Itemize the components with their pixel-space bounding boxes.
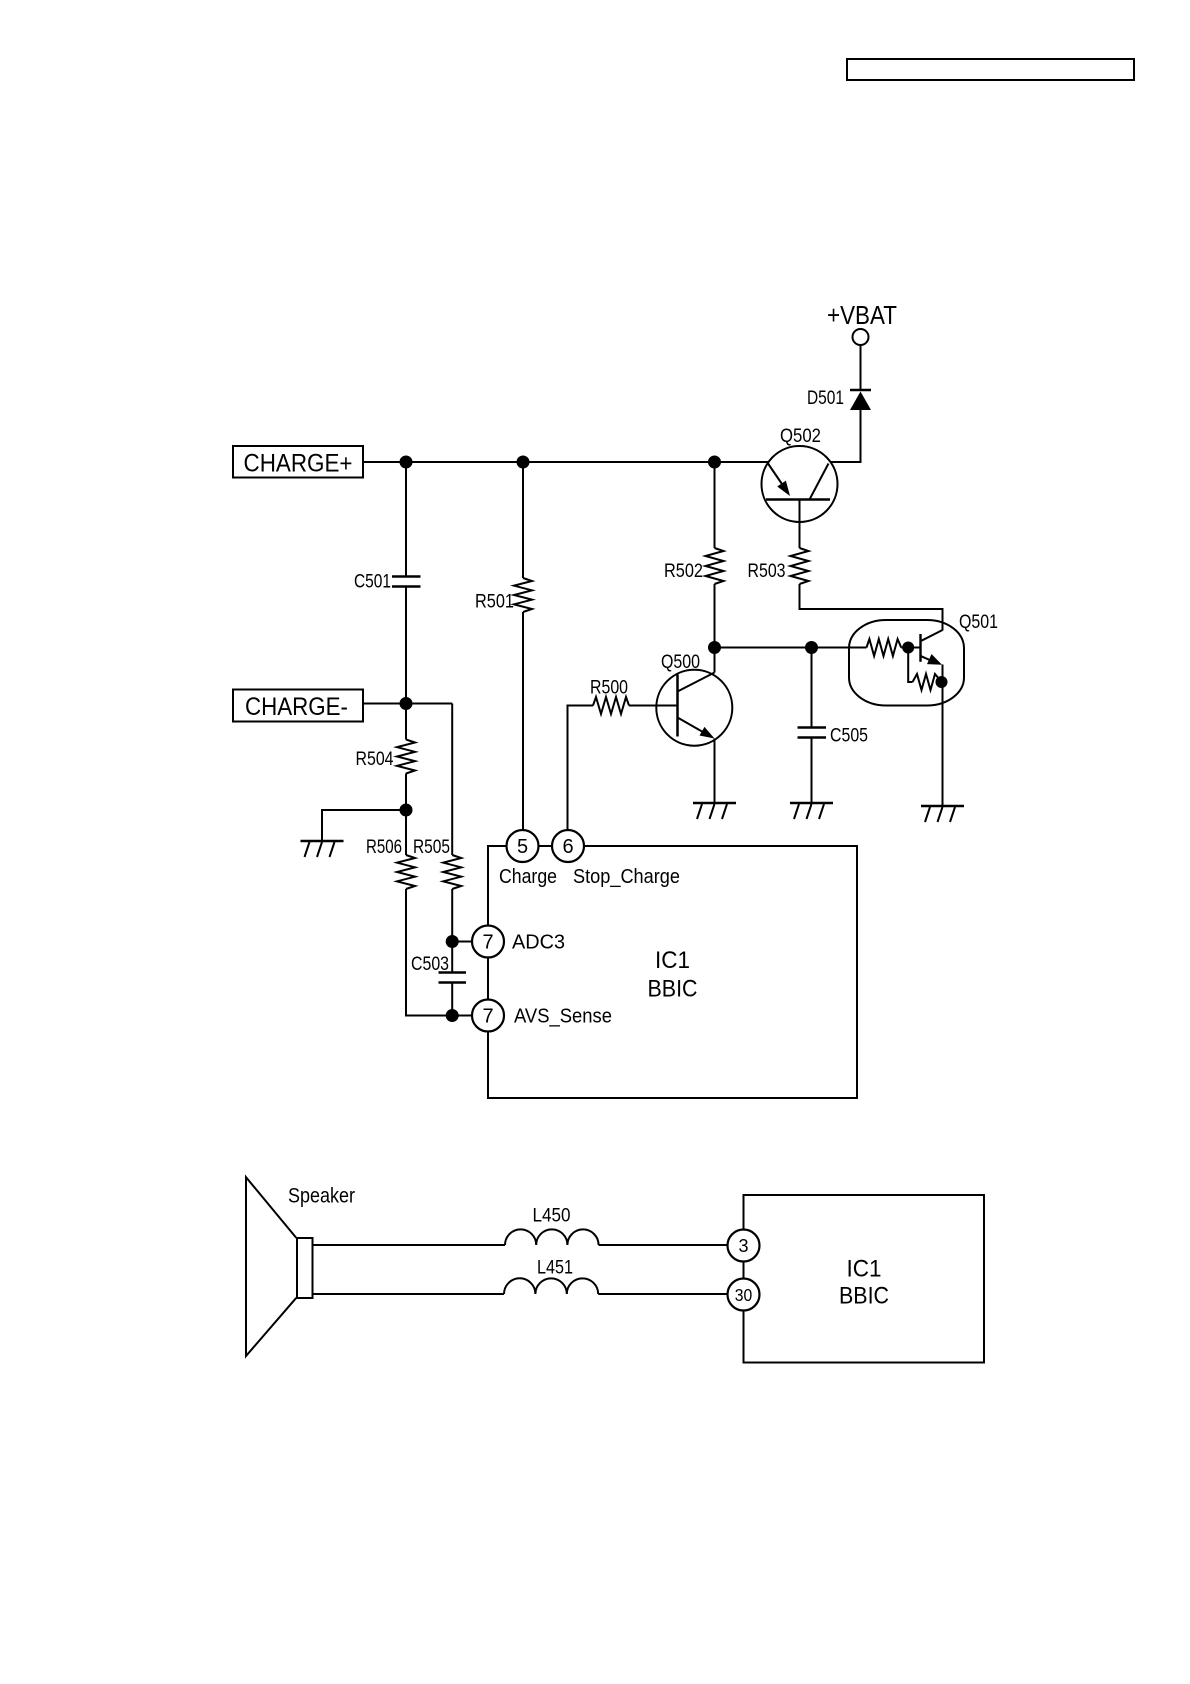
resistor R500 bbox=[590, 678, 629, 715]
ground left bbox=[301, 841, 344, 857]
svg-text:ADC3: ADC3 bbox=[512, 932, 565, 954]
svg-text:Q502: Q502 bbox=[780, 426, 821, 447]
IC U1 IC1 BBIC box bbox=[488, 846, 857, 1098]
wire L451 to pin 30 bbox=[598, 1293, 743, 1295]
svg-text:7: 7 bbox=[482, 1006, 493, 1028]
junction node / Q500 collector bbox=[708, 641, 721, 654]
capacitor C505 bbox=[798, 726, 869, 747]
ground Q500 emitter bbox=[693, 803, 736, 819]
wire C503 to AVS node bbox=[451, 983, 453, 1016]
wire R506 to AVS node bbox=[406, 889, 488, 1016]
pin 30 bbox=[728, 1279, 760, 1311]
svg-text:+VBAT: +VBAT bbox=[827, 300, 897, 330]
svg-text:R504: R504 bbox=[356, 749, 394, 770]
svg-text:C503: C503 bbox=[411, 954, 449, 975]
wire C505 to ground bbox=[811, 738, 813, 804]
wire R503 to Q501 collector bbox=[800, 584, 943, 631]
diode D501 bbox=[807, 388, 871, 410]
inductor L451 bbox=[504, 1258, 598, 1295]
wire CHARGE+ to R501 bbox=[522, 462, 524, 578]
svg-text:R503: R503 bbox=[748, 561, 786, 582]
svg-text:CHARGE-: CHARGE- bbox=[245, 693, 348, 721]
transistor Q500 bbox=[656, 652, 732, 746]
svg-text:6: 6 bbox=[562, 836, 573, 858]
wire collector node bus bbox=[715, 647, 867, 649]
wire +VBAT to D501 bbox=[860, 345, 862, 390]
wire CHARGE+ to R502 bbox=[714, 462, 716, 548]
capacitor C503 bbox=[411, 954, 466, 983]
terminal +VBAT bbox=[853, 329, 869, 345]
svg-text:L451: L451 bbox=[537, 1258, 573, 1279]
wire pin 6 to R500 bbox=[568, 706, 594, 847]
junction CHARGE+ / R502 bbox=[708, 456, 721, 469]
wire CHARGE- to R504 bbox=[405, 704, 407, 740]
pin 6 bbox=[552, 830, 584, 862]
capacitor C501 bbox=[354, 572, 421, 593]
ground C505 bbox=[790, 803, 833, 819]
svg-text:AVS_Sense: AVS_Sense bbox=[514, 1006, 612, 1028]
svg-text:R501: R501 bbox=[475, 592, 514, 613]
ground Q501 emitter bbox=[921, 806, 964, 822]
wire D501 anode to Q502 collector bbox=[830, 410, 861, 462]
junction CHARGE+ / C501 bbox=[400, 456, 413, 469]
junction Q501 emitter node bbox=[936, 676, 948, 688]
junction CHARGE+ / R501 bbox=[517, 456, 530, 469]
wire speaker to L451 bbox=[313, 1293, 505, 1295]
junction R505 / C503 bbox=[446, 935, 459, 948]
svg-text:IC1: IC1 bbox=[655, 947, 690, 974]
resistor R501 bbox=[475, 578, 532, 613]
wire R500 to Q500 base bbox=[629, 705, 678, 707]
svg-text:IC1: IC1 bbox=[847, 1256, 882, 1283]
svg-text:C505: C505 bbox=[830, 726, 868, 747]
junction CHARGE- / R504 bbox=[400, 697, 413, 710]
pin 7 AVS_Sense bbox=[472, 1000, 504, 1032]
svg-text:5: 5 bbox=[517, 836, 528, 858]
svg-text:Q501: Q501 bbox=[959, 612, 998, 633]
speaker LS1 bbox=[246, 1177, 355, 1356]
wire CHARGE- to R505 bbox=[451, 704, 453, 856]
resistor R502 bbox=[664, 548, 724, 584]
pin 7 ADC3 bbox=[472, 926, 504, 958]
wire node to Q500 collector bbox=[714, 648, 716, 673]
transistor Q501 bbox=[849, 612, 998, 706]
svg-text:7: 7 bbox=[482, 932, 493, 954]
svg-text:R505: R505 bbox=[413, 837, 450, 858]
resistor R504 bbox=[356, 740, 416, 774]
port CHARGE+ bbox=[233, 446, 363, 478]
wire CHARGE+ to C501 bbox=[405, 462, 407, 577]
IC U2 IC1 BBIC box (audio) bbox=[744, 1195, 985, 1363]
svg-text:R502: R502 bbox=[664, 561, 703, 582]
wire R501 to pin 5 bbox=[522, 612, 524, 846]
wire Q502 base to R503 bbox=[799, 500, 801, 549]
pin 5 bbox=[507, 830, 539, 862]
svg-text:D501: D501 bbox=[807, 388, 844, 409]
svg-text:Q500: Q500 bbox=[661, 652, 700, 673]
svg-text:R506: R506 bbox=[366, 837, 402, 858]
transistor Q502 bbox=[762, 426, 838, 522]
title box bbox=[847, 59, 1134, 80]
junction node / C505 bbox=[805, 641, 818, 654]
resistor R505 bbox=[413, 837, 461, 889]
wire CHARGE- bus bbox=[363, 703, 452, 705]
wire speaker to L450 bbox=[313, 1244, 506, 1246]
junction Q501 base node bbox=[902, 642, 914, 654]
svg-text:Charge: Charge bbox=[499, 866, 557, 888]
wire ground node to ground bbox=[322, 810, 406, 841]
junction C503 / AVS bbox=[446, 1009, 459, 1022]
wire L450 to pin 3 bbox=[599, 1244, 744, 1246]
svg-text:L450: L450 bbox=[533, 1206, 571, 1227]
svg-text:C501: C501 bbox=[354, 572, 391, 593]
wire C501 to CHARGE- node bbox=[405, 587, 407, 704]
svg-text:BBIC: BBIC bbox=[648, 976, 698, 1003]
resistor R503 bbox=[748, 548, 809, 584]
svg-text:Stop_Charge: Stop_Charge bbox=[573, 866, 680, 888]
junction R504 / ground bbox=[400, 804, 413, 817]
wire CHARGE+ bus bbox=[363, 461, 768, 463]
wire R505 to ADC3 node bbox=[451, 889, 453, 942]
svg-text:CHARGE+: CHARGE+ bbox=[244, 450, 353, 478]
wire node to C503 bbox=[451, 942, 453, 973]
wire R504 to ground node bbox=[405, 774, 407, 811]
wire ADC3 node to pin 7 bbox=[452, 941, 488, 943]
inductor L450 bbox=[505, 1206, 599, 1246]
port CHARGE- bbox=[233, 690, 363, 722]
svg-text:3: 3 bbox=[738, 1236, 748, 1256]
wire Q501 emitter to ground bbox=[942, 665, 944, 807]
wire node to C505 bbox=[811, 648, 813, 728]
wire Q500 emitter to ground bbox=[714, 739, 716, 804]
svg-text:BBIC: BBIC bbox=[839, 1283, 889, 1310]
wire R502 to collector node bbox=[714, 584, 716, 648]
wire node to R506 bbox=[405, 810, 407, 855]
resistor R506 bbox=[366, 837, 415, 889]
svg-text:Speaker: Speaker bbox=[288, 1185, 355, 1208]
svg-text:R500: R500 bbox=[590, 678, 628, 699]
pin 3 bbox=[728, 1230, 760, 1262]
svg-text:30: 30 bbox=[735, 1285, 753, 1305]
